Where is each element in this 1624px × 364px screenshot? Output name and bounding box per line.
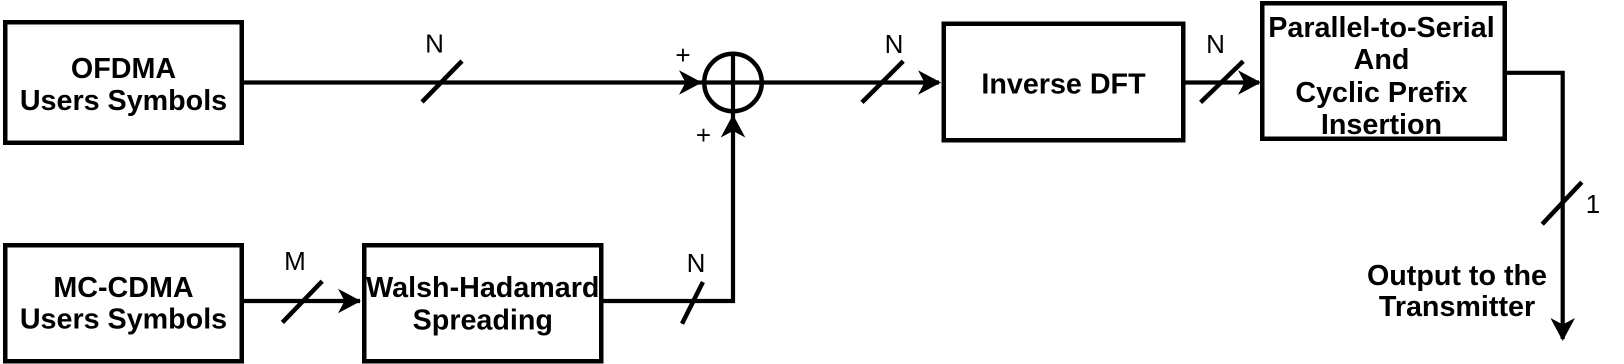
svg-text:Users Symbols: Users Symbols [20, 85, 227, 117]
svg-text:1: 1 [1586, 189, 1600, 219]
svg-text:Output to the: Output to the [1367, 260, 1547, 292]
svg-text:N: N [885, 29, 904, 59]
svg-text:OFDMA: OFDMA [71, 53, 176, 85]
bus slash N before Inverse DFT [862, 61, 903, 102]
wire Walsh-Hadamard output elbow up to adder [603, 52, 733, 303]
arrowhead into adder from left [679, 70, 702, 95]
svg-text:Insertion: Insertion [1321, 109, 1442, 141]
bus slash 1 on output wire [1542, 182, 1582, 224]
block MC-CDMA Users Symbols [5, 245, 242, 361]
svg-text:+: + [696, 120, 711, 150]
svg-text:Cyclic Prefix: Cyclic Prefix [1295, 77, 1467, 109]
svg-text:Users Symbols: Users Symbols [20, 304, 227, 336]
block Parallel-to-Serial And Cyclic Prefix Insertion [1262, 3, 1505, 139]
bus slash N on OFDMA wire [422, 61, 462, 102]
arrowhead into adder from below [721, 115, 746, 138]
arrowhead into Parallel-to-Serial [1238, 70, 1261, 95]
bus slash N before Parallel-to-Serial [1201, 61, 1244, 102]
wire OFDMA box through adder to Inverse DFT [244, 80, 939, 84]
svg-text:And: And [1354, 44, 1410, 76]
svg-text:N: N [687, 248, 706, 278]
block Inverse DFT [944, 24, 1184, 141]
bus slash M on MC-CDMA wire [282, 281, 322, 322]
svg-text:N: N [425, 28, 444, 58]
svg-text:Parallel-to-Serial: Parallel-to-Serial [1268, 12, 1494, 44]
svg-text:Inverse DFT: Inverse DFT [981, 68, 1146, 100]
adder summing junction circle [704, 54, 762, 112]
svg-text:MC-CDMA: MC-CDMA [53, 272, 193, 304]
wire MC-CDMA box to Walsh-Hadamard box [244, 299, 360, 303]
arrowhead into Walsh-Hadamard box [338, 289, 361, 314]
wire Parallel-to-Serial output elbow down to transmitter [1507, 71, 1563, 339]
block OFDMA Users Symbols [5, 22, 242, 143]
bus slash N on Walsh-Hadamard output [682, 282, 703, 324]
svg-text:+: + [675, 40, 690, 70]
svg-text:N: N [1206, 29, 1225, 59]
svg-text:M: M [284, 246, 306, 276]
svg-text:Walsh-Hadamard: Walsh-Hadamard [366, 272, 599, 304]
arrowhead into Inverse DFT [918, 70, 941, 95]
svg-text:Spreading: Spreading [413, 305, 553, 337]
svg-text:Transmitter: Transmitter [1379, 291, 1535, 323]
block Walsh-Hadamard Spreading [364, 245, 601, 361]
wire Inverse DFT to Parallel-to-Serial [1185, 80, 1259, 84]
arrowhead output to transmitter (down) [1550, 318, 1575, 341]
